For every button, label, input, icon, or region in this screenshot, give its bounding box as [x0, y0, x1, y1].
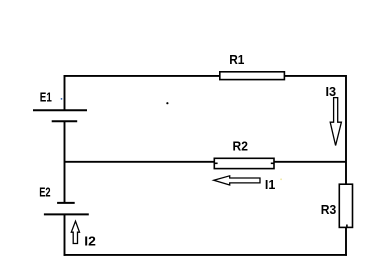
battery E1 long plate [33, 109, 87, 111]
stray black dot [166, 102, 168, 104]
resistor R1 [220, 72, 285, 80]
svg-text:I1: I1 [265, 177, 275, 192]
svg-text:E2: E2 [39, 184, 50, 199]
wire: right vertical [345, 75, 347, 256]
current arrow I3 (pointing down) [330, 98, 341, 146]
svg-text:I3: I3 [326, 84, 337, 99]
stray faint yellow dot near I1 [280, 178, 282, 180]
svg-text:R3: R3 [321, 202, 337, 217]
current arrow I2 (pointing up) [71, 221, 79, 243]
resistor R2 [214, 158, 274, 168]
wire: left vertical lower (E2 to bottom corner) [64, 214, 66, 255]
wire stub inside R2 left [215, 162, 218, 164]
wire: left vertical middle (E1 to E2) [64, 121, 66, 203]
battery E1 short plate [52, 120, 77, 122]
stray blue dot near E1 [61, 98, 63, 100]
resistor R3 [339, 184, 352, 227]
wire: left vertical upper (top corner to E1) [64, 75, 66, 110]
battery E2 long plate [44, 213, 89, 215]
svg-text:R1: R1 [229, 52, 244, 67]
svg-text:I2: I2 [84, 233, 96, 248]
wire stub inside R2 right [271, 162, 274, 164]
svg-text:R2: R2 [233, 139, 248, 154]
wire stub inside R3 bottom [346, 225, 348, 229]
svg-text:E1: E1 [40, 90, 52, 105]
current arrow I1 (pointing left) [214, 176, 260, 185]
wire: top horizontal [64, 75, 346, 77]
battery E2 short plate [57, 202, 75, 204]
wire: bottom horizontal [64, 254, 347, 256]
wire: middle horizontal [65, 161, 347, 163]
